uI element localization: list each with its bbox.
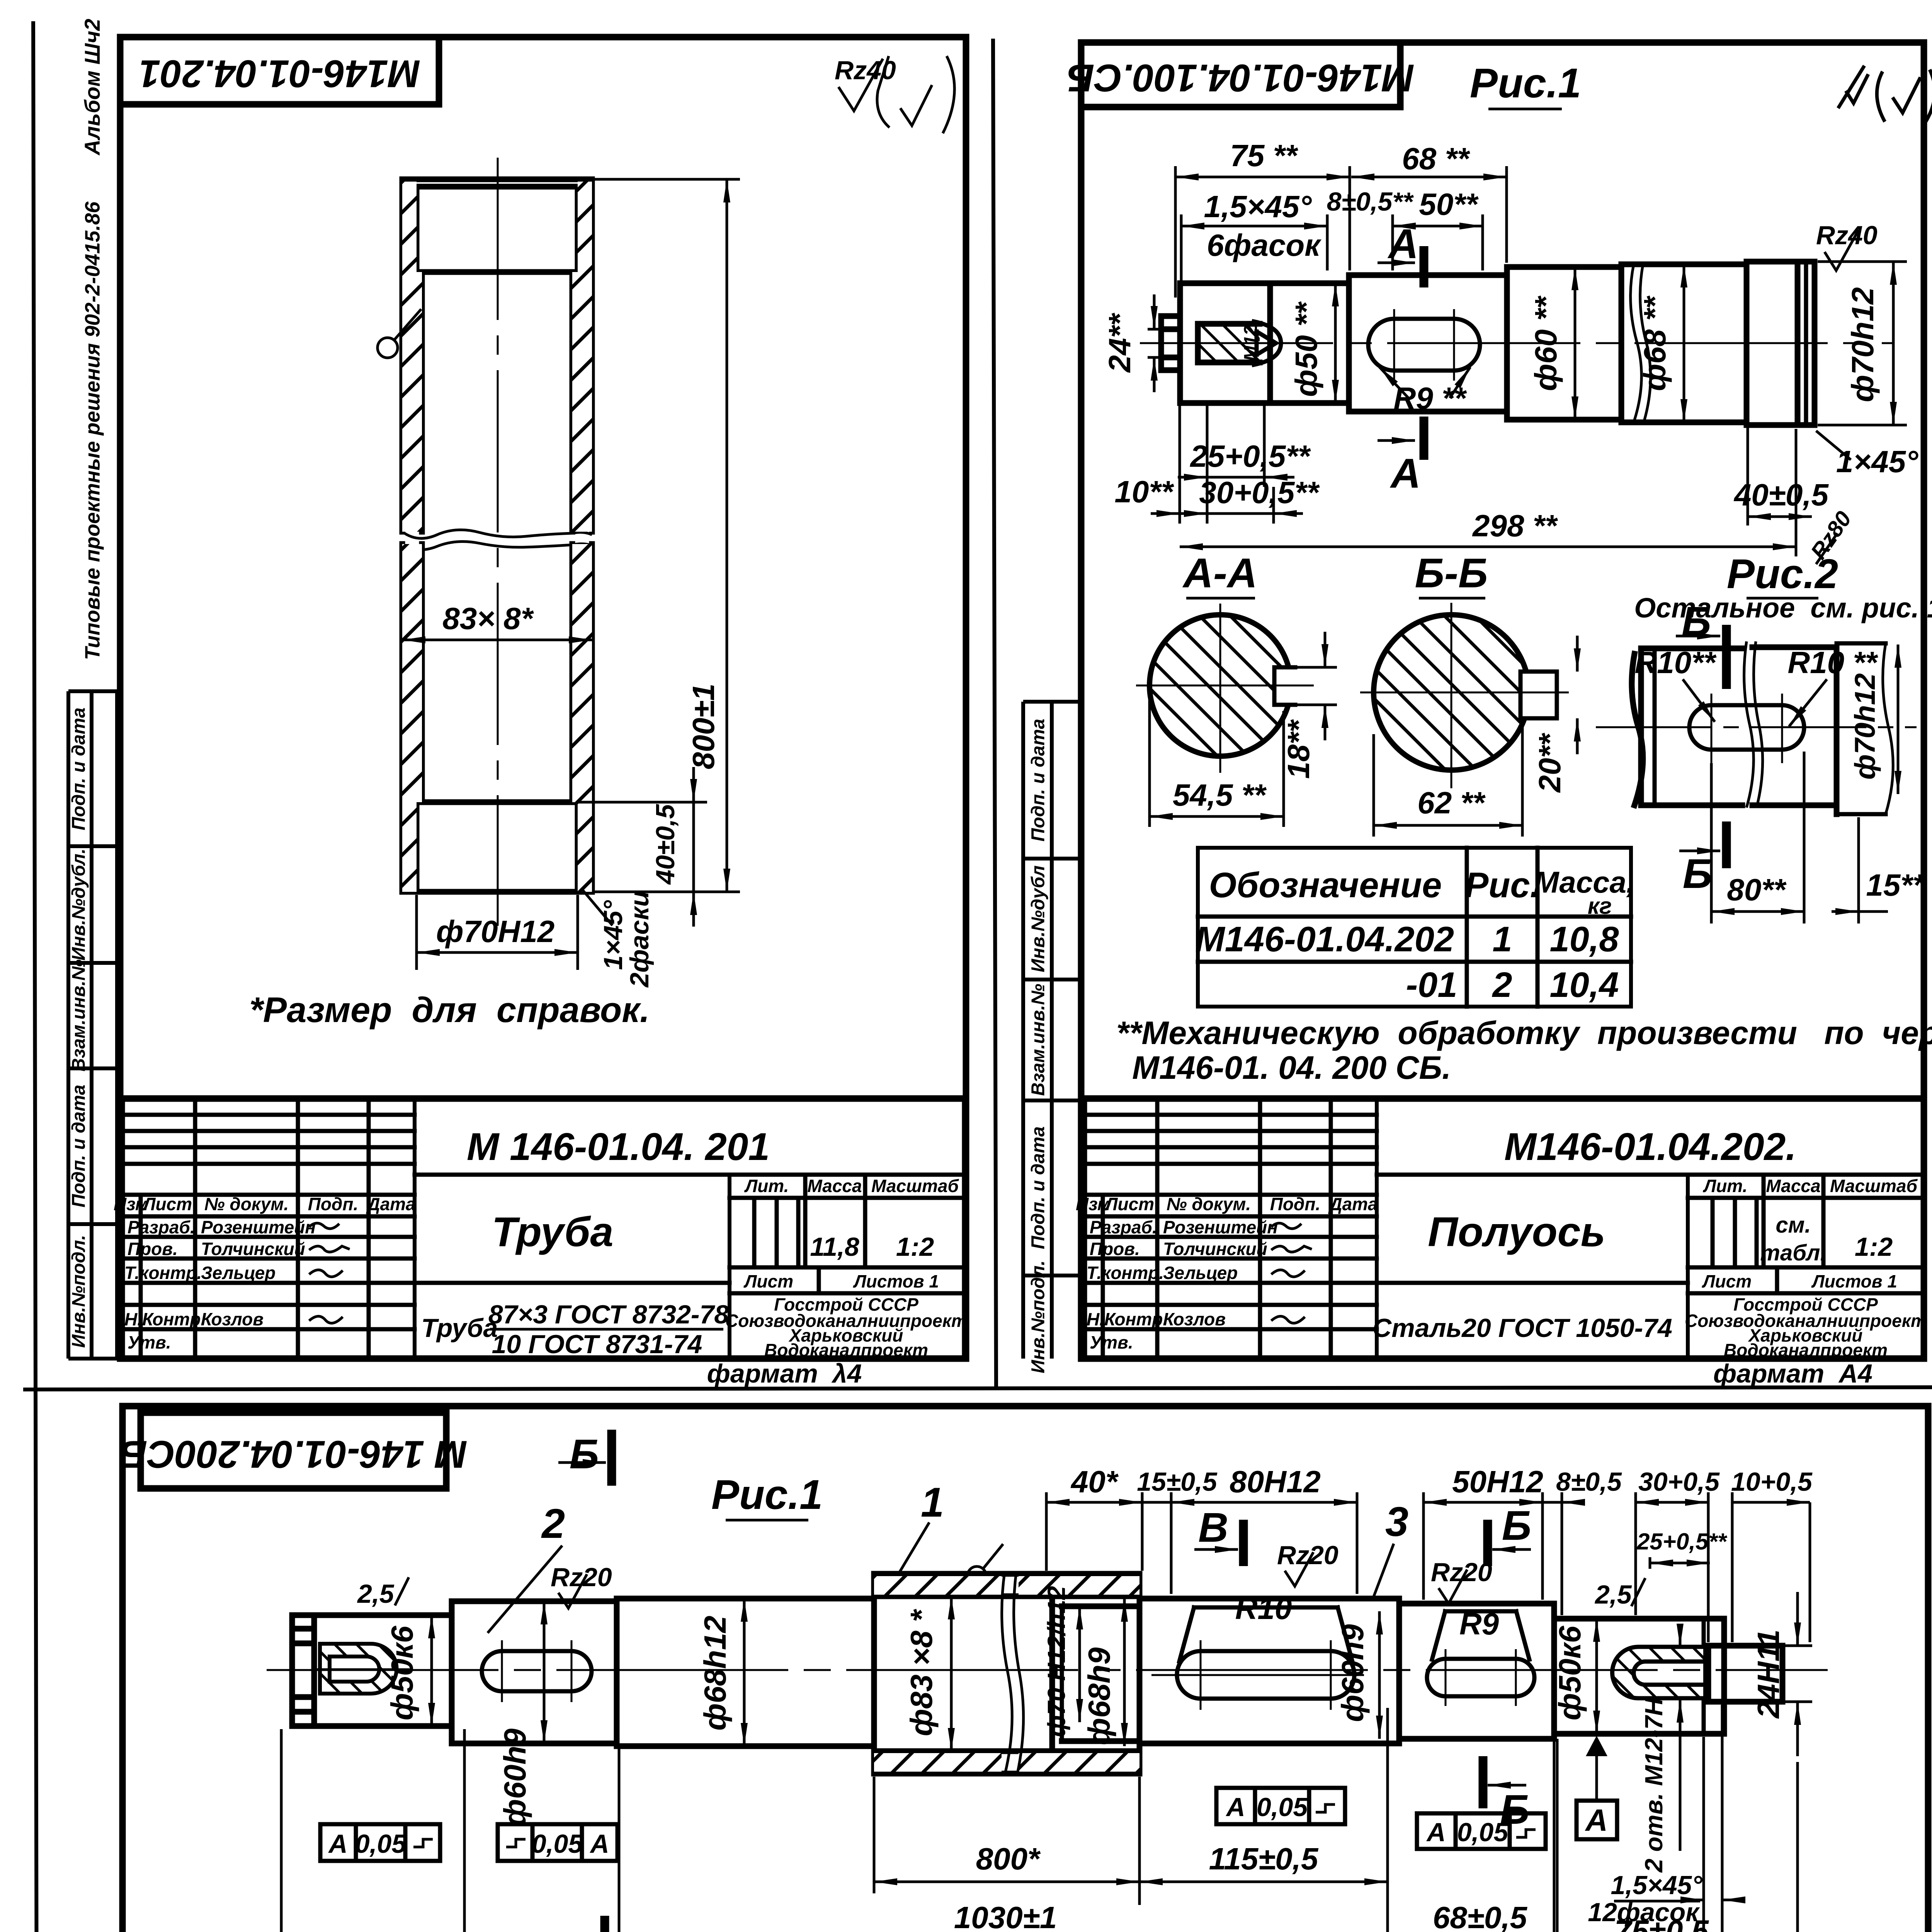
svg-text:Рис.2: Рис.2 — [1727, 550, 1838, 597]
sheet1 frame — [120, 37, 966, 1359]
signatures squiggles — [309, 1223, 350, 1323]
key taper lines R10 — [1179, 1607, 1352, 1662]
dim ф50к6 left — [385, 1615, 432, 1726]
svg-text:Лист: Лист — [1104, 1194, 1154, 1214]
sheet1 strip labels — [69, 707, 89, 1348]
sheet2 strip labels — [1028, 719, 1049, 1373]
svg-text:Масса: Масса — [1766, 1176, 1820, 1196]
Б-Б dim 62** — [1374, 723, 1522, 837]
svg-text:А: А — [589, 1829, 609, 1859]
sheet1 left inventory strip boxes — [68, 691, 117, 1359]
dim ф68** — [1638, 264, 1684, 422]
svg-text:25+0,5**: 25+0,5** — [1189, 439, 1311, 473]
svg-text:Масса,: Масса, — [1534, 865, 1634, 899]
svg-text:Альбом Шч2: Альбом Шч2 — [80, 19, 104, 156]
key taper lines R9 — [1432, 1611, 1529, 1660]
shaft center line — [1140, 342, 1893, 344]
tube wall hatching — [402, 182, 592, 892]
dim ф70Н12/h12 — [1043, 1586, 1080, 1737]
top dimension chain texts — [1070, 1464, 1813, 1499]
title block header labels — [1076, 1194, 1378, 1214]
keyway slot R10 — [1151, 1640, 1364, 1710]
svg-text:Б: Б — [1683, 850, 1712, 897]
material row — [421, 1300, 729, 1359]
left fork slot (hatched) — [317, 1644, 410, 1694]
svg-text:40±0,5: 40±0,5 — [651, 804, 680, 885]
sheet1 roughness mark Rz40 top right — [835, 56, 954, 133]
svg-text:Рис.: Рис. — [1465, 866, 1540, 905]
svg-text:Инв.№подл.: Инв.№подл. — [69, 1235, 89, 1348]
keyway section — [1349, 275, 1507, 412]
dimension 800±1 — [592, 179, 740, 892]
R10 label — [1235, 1591, 1292, 1626]
left castle end — [292, 1615, 314, 1726]
svg-text:Т.контр.: Т.контр. — [124, 1263, 202, 1283]
right fork slot (hatched) — [1612, 1647, 1703, 1698]
svg-text:18**: 18** — [1281, 719, 1316, 779]
dim ф68h9 collar — [1082, 1599, 1124, 1746]
svg-text:80**: 80** — [1727, 872, 1787, 907]
svg-text:Rz40: Rz40 — [1816, 221, 1878, 250]
svg-text:2: 2 — [1492, 965, 1512, 1005]
svg-text:3: 3 — [1385, 1498, 1408, 1545]
svg-text:Рис.1: Рис.1 — [1470, 60, 1581, 106]
svg-text:ф68 **: ф68 ** — [1638, 295, 1672, 391]
part name Полуось — [1428, 1208, 1605, 1255]
material — [1372, 1313, 1672, 1343]
org name — [1685, 1294, 1927, 1360]
svg-text:Остальное см. рис. 1: Остальное см. рис. 1 — [1634, 593, 1932, 624]
svg-text:Масштаб: Масштаб — [1830, 1176, 1918, 1196]
datum frame А 0,05 right — [1417, 1813, 1546, 1849]
А-А circle — [1136, 604, 1314, 773]
R9 label — [1459, 1607, 1499, 1641]
svg-text:0,05: 0,05 — [532, 1829, 583, 1859]
svg-text:Утв.: Утв. — [1090, 1332, 1133, 1352]
svg-text:0,05: 0,05 — [355, 1829, 407, 1859]
dim 1166±1 — [464, 1729, 1722, 1932]
roughness 2,5 left — [357, 1577, 409, 1609]
dim 68** — [1351, 141, 1507, 263]
svg-text:1: 1 — [1492, 920, 1512, 959]
dim ф60h9 mid — [1335, 1611, 1379, 1739]
tube bore walls — [422, 272, 572, 802]
dim 75** — [1175, 138, 1350, 298]
svg-text:Толчинский: Толчинский — [201, 1239, 305, 1259]
svg-text:Дата: Дата — [366, 1194, 415, 1214]
pos leader 2 — [488, 1500, 565, 1633]
svg-text:25+0,5**: 25+0,5** — [1636, 1529, 1728, 1554]
section cut А-А marks — [1378, 220, 1424, 497]
svg-text:Розенштейн: Розенштейн — [201, 1217, 316, 1237]
part name Труба — [492, 1208, 614, 1255]
А-А dim 54,5** — [1150, 692, 1284, 827]
ф70h12 section — [1747, 262, 1815, 425]
Б cut mark bottom mid — [1483, 1756, 1529, 1833]
tube bottom socket bore — [417, 802, 578, 892]
svg-text:54,5 **: 54,5 ** — [1173, 778, 1267, 812]
dim ф70h12 — [1818, 262, 1907, 425]
svg-text:А: А — [1426, 1818, 1446, 1847]
svg-text:ф50 **: ф50 ** — [1289, 301, 1323, 397]
svg-text:Пров.: Пров. — [1090, 1239, 1140, 1259]
Рис.1 caption — [1470, 60, 1581, 109]
svg-text:Масштаб: Масштаб — [871, 1176, 959, 1196]
fork / ф50 body — [1180, 283, 1349, 403]
Рис.2 caption sheet2 — [1634, 550, 1932, 624]
dim 10** — [1114, 370, 1180, 524]
org name — [725, 1294, 967, 1360]
sheet2 frame — [1081, 43, 1924, 1359]
svg-text:50**: 50** — [1419, 187, 1479, 221]
svg-text:Зельцер: Зельцер — [1163, 1263, 1238, 1283]
keyway slot R9 — [1427, 1649, 1534, 1706]
dim ф50** — [1289, 283, 1335, 403]
svg-text:фармат λ4: фармат λ4 — [707, 1359, 862, 1388]
svg-text:Листов 1: Листов 1 — [1811, 1271, 1897, 1291]
svg-text:Инв.№дубл: Инв.№дубл — [1028, 865, 1049, 972]
fragment body left — [1632, 648, 1742, 805]
svg-text:*Размер для справок.: *Размер для справок. — [249, 990, 650, 1030]
dim 75±0,5 — [1557, 1705, 1722, 1932]
dim 115±0,5 — [1139, 1708, 1388, 1932]
ф60h9 R9 section — [1399, 1604, 1554, 1739]
svg-text:Подп.: Подп. — [308, 1194, 359, 1214]
dimension 83x8 — [402, 601, 592, 640]
Б-Б circle — [1360, 603, 1569, 788]
dim 25+0,5** (second level) — [1636, 1529, 1728, 1569]
shaft center line — [267, 1669, 1828, 1671]
svg-text:30+0,5: 30+0,5 — [1638, 1467, 1720, 1497]
svg-text:ф50к6: ф50к6 — [1553, 1626, 1587, 1720]
machining symbol on left wall — [378, 309, 421, 358]
1x45 chamfer note — [1816, 431, 1918, 479]
title block vertical lines — [141, 1099, 865, 1359]
svg-text:83× 8*: 83× 8* — [442, 601, 534, 636]
svg-text:62 **: 62 ** — [1417, 786, 1486, 820]
svg-text:В: В — [1198, 1504, 1228, 1551]
dim 2 отв М12-7Н — [1640, 1629, 1680, 1873]
sheet2 left inventory strip — [1023, 702, 1081, 1359]
формат А4 label — [1713, 1359, 1872, 1388]
Rz40 near shaft right — [1816, 221, 1878, 270]
sheet3 frame — [122, 1406, 1928, 1932]
svg-text:R10: R10 — [1235, 1591, 1292, 1626]
title block vertical lines — [1103, 1099, 1823, 1359]
svg-text:см.: см. — [1776, 1213, 1811, 1238]
svg-text:30+0,5**: 30+0,5** — [1199, 475, 1320, 510]
tube center line — [497, 158, 499, 926]
svg-text:А: А — [1389, 450, 1421, 497]
svg-text:Т.контр.: Т.контр. — [1087, 1263, 1164, 1283]
svg-text:R10**: R10** — [1634, 645, 1717, 680]
svg-text:М146-01.04.202.: М146-01.04.202. — [1504, 1125, 1796, 1168]
title block name rows — [1087, 1217, 1278, 1352]
ф50к6 right section — [1554, 1619, 1724, 1734]
svg-text:24**: 24** — [1102, 313, 1137, 373]
chamfer note 1,5x45 12фасок — [1588, 1871, 1745, 1927]
svg-text:ф70Н12: ф70Н12 — [436, 914, 555, 949]
svg-text:А: А — [1225, 1793, 1245, 1822]
А-А label — [1182, 549, 1257, 598]
fragment ф70h12 — [1849, 645, 1898, 794]
right end stub 24H11 — [1708, 1646, 1782, 1702]
svg-text:10+0,5: 10+0,5 — [1731, 1467, 1813, 1497]
svg-text:2,5: 2,5 — [357, 1579, 395, 1609]
dim 25+0,5** — [1178, 403, 1311, 524]
svg-text:ф60h9: ф60h9 — [498, 1728, 532, 1827]
svg-text:Б: Б — [1682, 598, 1711, 645]
svg-text:24Н11: 24Н11 — [1751, 1629, 1786, 1719]
svg-text:298 **: 298 ** — [1472, 509, 1558, 543]
datum frame А 0,05 mid — [1216, 1788, 1345, 1824]
svg-text:ф50к6: ф50к6 — [385, 1626, 419, 1720]
title block frame — [1084, 1099, 1924, 1359]
svg-text:Инв.№дубл.: Инв.№дубл. — [69, 849, 89, 961]
dim 68±0,5 — [1388, 1737, 1554, 1932]
svg-text:М146-01.04.202: М146-01.04.202 — [1195, 920, 1454, 959]
svg-text:1030±1: 1030±1 — [954, 1900, 1057, 1932]
dim ф60** — [1529, 267, 1575, 420]
svg-text:Лит.: Лит. — [1703, 1176, 1748, 1196]
pos leader 3 — [1372, 1498, 1408, 1600]
svg-text:87×3 ГОСТ 8732-78: 87×3 ГОСТ 8732-78 — [488, 1300, 729, 1329]
svg-text:68 **: 68 ** — [1402, 141, 1470, 176]
svg-text:75 **: 75 ** — [1230, 138, 1298, 173]
svg-text:Подп. и дата: Подп. и дата — [69, 1085, 89, 1207]
svg-text:11,8: 11,8 — [810, 1232, 859, 1262]
svg-text:Н.Контр.: Н.Контр. — [124, 1309, 206, 1329]
tube outer contour — [402, 179, 592, 892]
fragment body right — [1744, 641, 1893, 814]
ф60h9 R10 keyway section (right of collar) — [1139, 1599, 1399, 1743]
dim ф60h9 left — [498, 1601, 544, 1827]
svg-text:Зельцер: Зельцер — [201, 1263, 276, 1283]
ф60 section — [1507, 267, 1621, 420]
dim 40±0,5 — [1733, 427, 1829, 526]
ф68h12 section — [617, 1599, 874, 1746]
title block horizontal lines — [1084, 1115, 1924, 1329]
svg-text:1×45°: 1×45° — [599, 900, 628, 970]
Б-Б label — [1415, 549, 1488, 598]
ф68 section with break — [1621, 264, 1747, 422]
svg-text:Взам.инв.№: Взам.инв.№ — [69, 959, 89, 1071]
page outer left edge line — [33, 21, 38, 1932]
dim 1316±1 — [281, 1729, 1798, 1932]
svg-text:ф83 ×8 *: ф83 ×8 * — [904, 1609, 939, 1736]
Б cut mark top (right) — [1488, 1502, 1531, 1566]
fragment dim 80** — [1711, 752, 1804, 923]
vertical divider between top two sheets — [993, 39, 996, 1388]
svg-text:кг: кг — [1588, 893, 1612, 919]
svg-text:15±0,5: 15±0,5 — [1137, 1467, 1218, 1497]
svg-text:50Н12: 50Н12 — [1452, 1464, 1543, 1499]
А-А dim 18** — [1281, 632, 1337, 779]
top dimension chain lines — [1046, 1492, 1810, 1642]
title block name rows — [124, 1217, 316, 1352]
tube top socket bore — [417, 187, 578, 272]
dimension 40±0,5 — [578, 767, 707, 927]
svg-text:80Н12: 80Н12 — [1230, 1464, 1321, 1499]
signatures squiggles — [1271, 1223, 1312, 1323]
roughness marks Rz20 — [551, 1563, 612, 1608]
svg-text:Лист: Лист — [743, 1271, 793, 1291]
ф60h9 keyway section — [452, 1601, 617, 1743]
sheet1 top stamp box (rotated doc no) — [120, 37, 439, 104]
svg-text:ф68h9: ф68h9 — [1082, 1647, 1116, 1745]
svg-text:Rz20: Rz20 — [1277, 1541, 1338, 1570]
svg-text:М146-01.04.201: М146-01.04.201 — [139, 52, 420, 95]
svg-text:800*: 800* — [976, 1842, 1041, 1876]
svg-text:Лист: Лист — [142, 1194, 192, 1214]
note ** — [1116, 1015, 1932, 1086]
svg-text:Козлов: Козлов — [1163, 1309, 1226, 1329]
svg-text:Труба: Труба — [421, 1313, 498, 1343]
svg-text:Б: Б — [570, 1430, 599, 1477]
lit massa masshtab — [1702, 1176, 1918, 1291]
svg-text:68±0,5: 68±0,5 — [1433, 1900, 1528, 1932]
sheet2 roughness marks top right — [1838, 66, 1932, 123]
keyway slot R10 left — [482, 1640, 592, 1702]
dim 8±0,5** 50** — [1327, 187, 1483, 270]
svg-text:ф60 **: ф60 ** — [1529, 295, 1563, 391]
Б-Б dim 20** — [1532, 636, 1577, 793]
svg-text:М 146-01.04.200СБ: М 146-01.04.200СБ — [120, 1433, 467, 1476]
svg-text:R9: R9 — [1459, 1607, 1499, 1641]
svg-text:ф70h12: ф70h12 — [1849, 673, 1881, 779]
title block frame — [122, 1099, 965, 1359]
svg-text:800±1: 800±1 — [686, 684, 721, 769]
svg-text:№ докум.: № докум. — [204, 1194, 289, 1214]
svg-text:1×45°: 1×45° — [1836, 444, 1918, 479]
svg-text:Масса: Масса — [807, 1176, 862, 1196]
svg-text:1,5×45°: 1,5×45° — [1611, 1871, 1702, 1900]
roughness 2,5 right — [1594, 1578, 1645, 1609]
left fork body — [314, 1615, 452, 1726]
svg-text:М146-01. 04. 200 СБ.: М146-01. 04. 200 СБ. — [1132, 1049, 1451, 1086]
svg-text:40*: 40* — [1070, 1464, 1119, 1499]
svg-text:1:2: 1:2 — [896, 1232, 934, 1262]
svg-text:№ докум.: № докум. — [1167, 1194, 1251, 1214]
svg-text:Полуось: Полуось — [1428, 1208, 1605, 1255]
Б cut mark top left — [558, 1430, 612, 1486]
Б cut mark bottom left — [560, 1916, 605, 1932]
svg-text:Взам.инв.№: Взам.инв.№ — [1028, 984, 1049, 1096]
В cut mark top — [1194, 1504, 1243, 1566]
tube break wavy lines — [402, 530, 592, 549]
svg-text:Подп. и дата: Подп. и дата — [1028, 1126, 1049, 1249]
svg-text:Козлов: Козлов — [201, 1309, 264, 1329]
svg-text:Обозначение: Обозначение — [1209, 866, 1442, 905]
dim 24Н11 right — [1751, 1592, 1812, 1756]
svg-text:8±0,5: 8±0,5 — [1556, 1467, 1622, 1497]
fragment Б cut marks — [1676, 598, 1726, 897]
svg-text:75±0,5: 75±0,5 — [1614, 1914, 1709, 1932]
svg-text:1: 1 — [921, 1479, 944, 1526]
svg-text:10**: 10** — [1114, 474, 1174, 509]
doc number big — [467, 1125, 770, 1168]
svg-text:Лист: Лист — [1702, 1271, 1752, 1291]
note размер для справок — [249, 990, 650, 1030]
sheet2 top stamp box — [1067, 43, 1414, 107]
svg-text:6фасок: 6фасок — [1207, 228, 1321, 262]
sheet3 top stamp box — [120, 1413, 467, 1488]
fragment slot — [1596, 694, 1917, 763]
Рис.1 caption sheet3 — [711, 1471, 823, 1520]
title block header labels — [114, 1194, 416, 1214]
svg-text:10,4: 10,4 — [1549, 965, 1619, 1005]
title block horizontal lines — [122, 1115, 965, 1329]
dim 24** — [1102, 294, 1159, 392]
svg-text:Водоканалпроект: Водоканалпроект — [1724, 1340, 1888, 1360]
shaft end stub — [1161, 316, 1180, 370]
svg-text:2 отв. М12-7Н: 2 отв. М12-7Н — [1640, 1697, 1668, 1873]
dim 30+0,5** — [1178, 475, 1320, 524]
svg-text:Подп.: Подп. — [1270, 1194, 1321, 1214]
svg-text:М 146-01.04. 201: М 146-01.04. 201 — [467, 1125, 770, 1168]
svg-text:Пров.: Пров. — [128, 1239, 178, 1259]
Rz80 slanted — [1806, 507, 1856, 564]
svg-text:Труба: Труба — [492, 1208, 614, 1255]
svg-text:-01: -01 — [1406, 965, 1458, 1005]
svg-text:Rz20: Rz20 — [551, 1563, 612, 1592]
table texts — [1195, 865, 1635, 1005]
svg-text:А: А — [1585, 1803, 1608, 1837]
chamfer note 1x45 2фаски rotated — [582, 889, 654, 988]
svg-text:Инв.№подл.: Инв.№подл. — [1028, 1260, 1049, 1373]
svg-text:Б: Б — [1500, 1786, 1529, 1833]
svg-text:табл.: табл. — [1760, 1240, 1826, 1265]
svg-text:115±0,5: 115±0,5 — [1209, 1842, 1319, 1876]
dim ф83х8 — [904, 1596, 951, 1751]
svg-text:2: 2 — [541, 1500, 565, 1547]
tube collar (поз.1) — [874, 1572, 1139, 1775]
svg-text:2,5: 2,5 — [1594, 1580, 1632, 1609]
svg-text:Рис.1: Рис.1 — [711, 1471, 823, 1518]
svg-text:Подп. и дата: Подп. и дата — [1028, 719, 1049, 842]
svg-text:ф70 Н12/h12: ф70 Н12/h12 — [1043, 1586, 1070, 1737]
svg-text:Разраб.: Разраб. — [128, 1217, 195, 1237]
svg-text:ф70h12: ф70h12 — [1845, 287, 1880, 402]
svg-text:Разраб.: Разраб. — [1090, 1217, 1157, 1237]
svg-text:R9 **: R9 ** — [1394, 381, 1468, 415]
dim 298** — [1180, 429, 1796, 556]
М12 threaded hole — [1190, 321, 1287, 365]
svg-text:8±0,5**: 8±0,5** — [1327, 187, 1414, 216]
формат А4 label — [707, 1359, 862, 1388]
datum frame 0,05 А left2 — [498, 1824, 617, 1861]
svg-text:Сталь20 ГОСТ 1050-74: Сталь20 ГОСТ 1050-74 — [1372, 1313, 1672, 1343]
svg-text:Подп. и дата: Подп. и дата — [69, 707, 89, 830]
svg-text:М146-01.04.100.СБ: М146-01.04.100.СБ — [1067, 56, 1414, 100]
svg-text:1:2: 1:2 — [1855, 1232, 1893, 1262]
dim 800* — [874, 1777, 1139, 1905]
datum frame А 0,05 left1 — [320, 1824, 440, 1861]
svg-text:0,05: 0,05 — [1257, 1793, 1308, 1822]
lit massa masshtab — [743, 1176, 959, 1291]
svg-text:А-А: А-А — [1182, 549, 1257, 596]
svg-text:Дата: Дата — [1328, 1194, 1378, 1214]
fragment R10 labels — [1634, 645, 1878, 726]
horizontal divider between top sheets and bottom sheet — [23, 1387, 1932, 1389]
dim ф68h12 — [698, 1599, 744, 1746]
dim 1,5x45 6фасок — [1181, 189, 1327, 301]
svg-text:Типовые проектные решения 902-: Типовые проектные решения 902-2-0415.86 — [81, 201, 104, 660]
svg-text:Розенштейн: Розенштейн — [1163, 1217, 1278, 1237]
svg-text:Н.Контр.: Н.Контр. — [1087, 1309, 1168, 1329]
svg-text:А: А — [328, 1829, 347, 1859]
svg-text:1,5×45°: 1,5×45° — [1204, 189, 1312, 224]
